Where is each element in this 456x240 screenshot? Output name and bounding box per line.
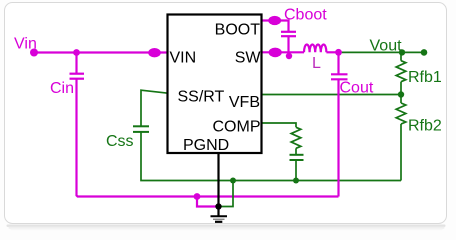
node junction ground tap on green rail (230, 178, 236, 184)
wire Css bottom to green bottom rail (141, 132, 401, 181)
wire Rcomp to Ccomp (295, 148, 297, 155)
svg-text:SS/RT: SS/RT (178, 89, 225, 106)
node junction Cboot on SW wire (286, 53, 292, 59)
node junction on bottom magenta wire (194, 193, 201, 200)
node Vout end terminal dot (421, 49, 428, 56)
resistor Rfb1 (396, 52, 406, 94)
wire Cin bottom down and along bottom to Cout bottom (77, 80, 339, 197)
wire Ccomp to green rail (295, 160, 297, 181)
wire SW pin to inductor (262, 51, 305, 53)
svg-text:SW: SW (235, 50, 262, 67)
wire stub from bottom magenta wire to ground node (197, 197, 217, 207)
svg-text:COMP: COMP (213, 119, 261, 136)
node VIN pin terminal oval (148, 48, 161, 57)
wire VFB to feedback divider (262, 94, 402, 96)
svg-text:BOOT: BOOT (215, 22, 261, 39)
node SW pin terminal oval (269, 48, 282, 58)
svg-text:Vout: Vout (370, 38, 403, 55)
resistor Rcomp (291, 127, 301, 148)
ground (211, 216, 228, 222)
svg-text:Cout: Cout (340, 80, 374, 97)
wire PGND pin to ground (217, 152, 219, 216)
capacitor Cout (331, 74, 348, 79)
node BOOT pin terminal oval (268, 16, 281, 25)
node junction Ccomp on green rail (293, 178, 299, 184)
node ground junction dot (215, 203, 221, 209)
svg-text:Cboot: Cboot (284, 7, 327, 24)
wire Cboot bottom to SW wire (287, 36, 289, 55)
wire SW node to Vout (339, 51, 425, 53)
node junction Cin on Vin wire (73, 49, 80, 56)
svg-text:Cin: Cin (50, 80, 74, 97)
resistor Rfb2 (396, 95, 406, 181)
capacitor Ccomp (290, 155, 304, 160)
wire Cout bottom to bottom magenta wire (337, 80, 339, 197)
wire green rail tap to ground node (219, 181, 233, 207)
wire SW node down to Cout (337, 52, 339, 73)
svg-text:Vin: Vin (14, 36, 37, 53)
svg-text:Css: Css (106, 133, 134, 150)
op-amp U1 IC body (168, 15, 262, 154)
node junction VFB divider (398, 91, 404, 97)
wire COMP to compensation network (262, 123, 297, 127)
svg-text:VFB: VFB (229, 94, 260, 111)
capacitor Cin (70, 74, 85, 79)
inductor L (304, 44, 326, 52)
node SW-L junction dot (335, 49, 342, 56)
svg-text:Rfb2: Rfb2 (408, 118, 442, 135)
svg-text:Rfb1: Rfb1 (408, 69, 442, 86)
node Vin terminal dot (30, 49, 38, 57)
wire junction to Cin top (75, 53, 77, 74)
capacitor Cboot (281, 32, 296, 36)
svg-text:VIN: VIN (170, 50, 197, 67)
svg-text:L: L (312, 55, 321, 72)
wire BOOT to Cboot (262, 21, 289, 32)
wire SS/RT to Css (slanted) (141, 90, 168, 126)
node Vout junction dot (399, 49, 405, 55)
wire Vin to VIN pin (34, 51, 167, 53)
wire inductor to SW node (326, 51, 338, 53)
svg-text:PGND: PGND (183, 137, 229, 154)
capacitor Css (133, 126, 149, 132)
